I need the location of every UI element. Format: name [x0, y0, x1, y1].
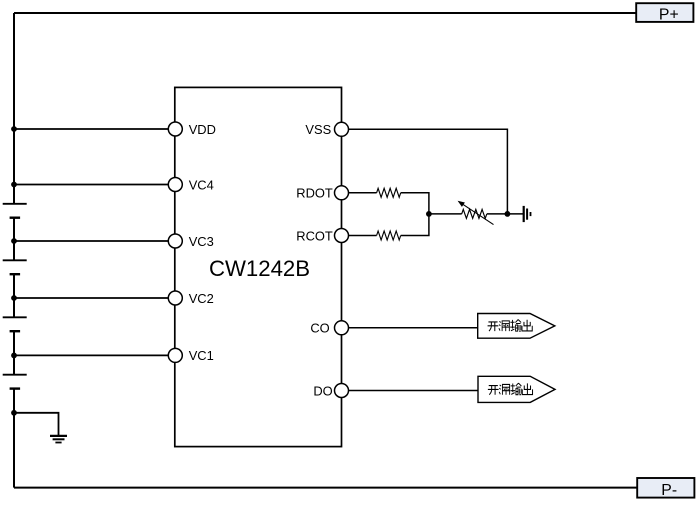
- svg-text:RCOT: RCOT: [296, 228, 333, 243]
- svg-text:VSS: VSS: [305, 122, 331, 137]
- svg-text:VC4: VC4: [189, 177, 214, 192]
- svg-text:VC2: VC2: [189, 291, 214, 306]
- svg-text:P-: P-: [661, 482, 677, 499]
- svg-text:CW1242B: CW1242B: [209, 256, 310, 281]
- svg-text:VC1: VC1: [189, 348, 214, 363]
- svg-text:VC3: VC3: [189, 234, 214, 249]
- svg-text:VDD: VDD: [189, 122, 216, 137]
- svg-text:P+: P+: [659, 7, 679, 24]
- svg-text:DO: DO: [313, 383, 332, 398]
- svg-text:CO: CO: [310, 321, 329, 336]
- svg-text:RDOT: RDOT: [296, 186, 333, 201]
